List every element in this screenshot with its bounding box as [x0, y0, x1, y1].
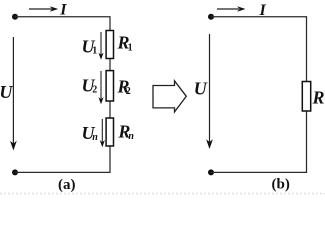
svg-text:U: U	[194, 79, 208, 99]
svg-text:R: R	[312, 88, 325, 108]
svg-text:n: n	[128, 131, 134, 142]
svg-text:I: I	[59, 2, 67, 19]
svg-text:2: 2	[92, 85, 97, 96]
svg-text:U: U	[0, 82, 13, 102]
svg-text:I: I	[259, 2, 267, 19]
svg-text:1: 1	[92, 45, 97, 56]
svg-text:n: n	[92, 132, 98, 143]
svg-text:(b): (b)	[272, 177, 290, 193]
svg-text:2: 2	[126, 86, 131, 97]
svg-text:(a): (a)	[58, 177, 76, 193]
svg-text:1: 1	[128, 42, 133, 53]
